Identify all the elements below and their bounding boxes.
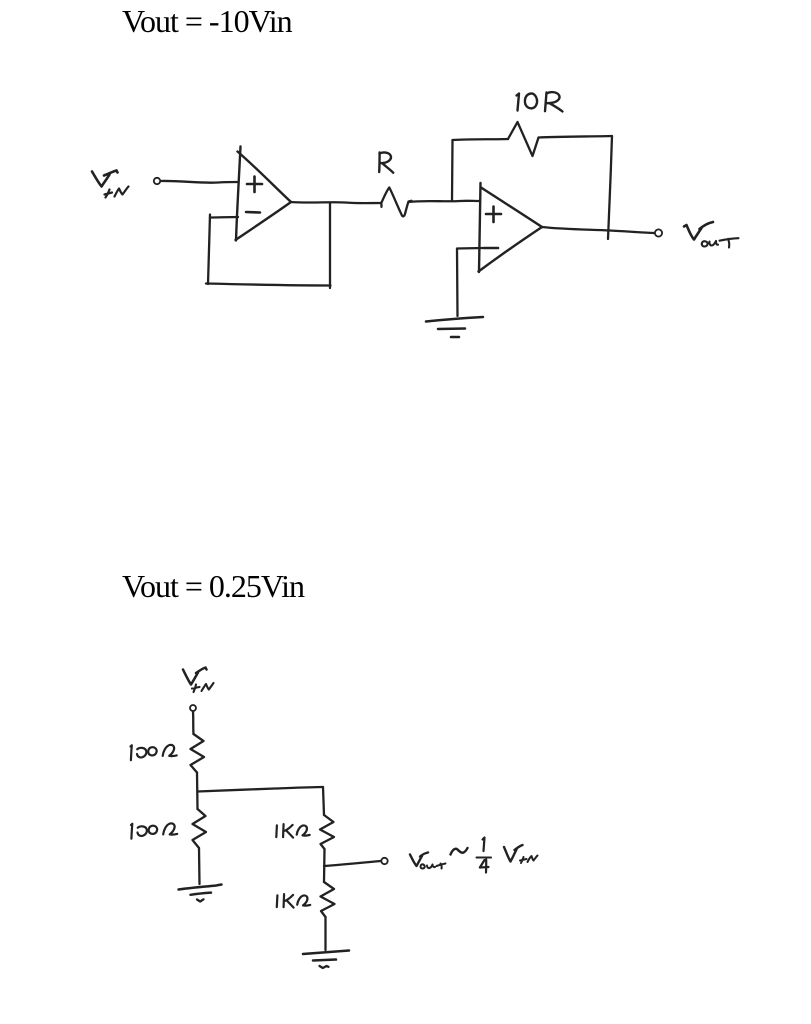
svg-text:Vout = 0.25Vin: Vout = 0.25Vin <box>122 568 305 604</box>
label 1Kohm (R3) <box>276 824 309 838</box>
ground (below R2) <box>179 885 222 902</box>
input terminal node (top circuit) <box>154 178 160 184</box>
equation text "Vout = -10Vin" <box>122 3 293 39</box>
wire resistor R to op-amp U2 + input <box>409 201 480 202</box>
node VOUT label (top circuit) <box>684 222 739 248</box>
resistor R4 1Kohm <box>321 882 335 917</box>
resistor R <box>381 188 411 217</box>
ground (below R4) <box>303 951 349 969</box>
wire feedback right vertical down to output <box>608 136 612 239</box>
resistor R1 100ohm <box>191 734 205 773</box>
svg-text:Vout = -10Vin: Vout = -10Vin <box>122 3 293 39</box>
wire VIN terminal down to resistor R1 <box>192 712 195 735</box>
wire top feedback left segment <box>453 139 509 140</box>
wire VIN to op-amp U1 + input <box>161 181 237 183</box>
wire R4 to ground <box>324 917 326 950</box>
wire R3 to R4 with output junction <box>323 849 326 882</box>
formula VOUT ~ 1/4 VIN <box>410 838 538 873</box>
label 1Kohm (R4) <box>277 894 310 908</box>
ground (below U2) <box>426 317 483 337</box>
output terminal node (bottom circuit) <box>381 858 387 864</box>
wire U1 feedback loop (output to - input) <box>206 203 331 288</box>
resistor 10R <box>508 122 539 156</box>
node VIN label (top circuit) <box>92 171 129 198</box>
wire R1 to junction and to R2 <box>196 773 199 810</box>
input terminal node (bottom circuit) <box>190 705 196 711</box>
wire R2 to ground <box>198 848 201 884</box>
label 100ohm (R2) <box>131 823 177 838</box>
wire feedback tap up from + input node <box>451 140 454 201</box>
wire junction horizontal branch to right <box>198 787 324 792</box>
wire top feedback right segment <box>539 136 613 138</box>
node VIN label (bottom circuit) <box>183 668 214 693</box>
output terminal node (top circuit) <box>655 229 662 236</box>
wire output tap to terminal <box>324 861 381 866</box>
resistor R3 1Kohm <box>320 815 334 849</box>
wire branch corner down to resistor R3 <box>323 787 324 815</box>
wire U2 output to VOUT terminal <box>542 227 654 233</box>
equation text "Vout = 0.25Vin" <box>122 568 305 604</box>
op-amp U2 <box>479 183 543 272</box>
resistor R2 100ohm <box>193 809 207 848</box>
wire U2 - input to ground <box>457 248 483 316</box>
op-amp U1 <box>236 147 292 241</box>
label 10R <box>517 92 563 111</box>
wire U1 output to resistor R <box>291 202 381 203</box>
label 100ohm (R1) <box>131 745 177 760</box>
label R <box>379 152 393 172</box>
